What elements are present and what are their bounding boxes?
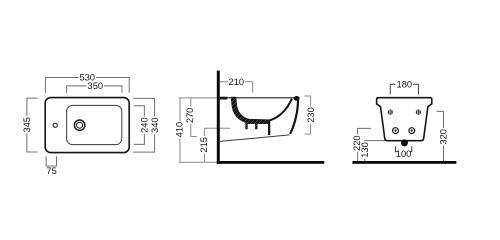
svg-text:320: 320: [439, 129, 449, 145]
svg-text:345: 345: [22, 117, 32, 133]
svg-text:180: 180: [397, 79, 413, 89]
svg-text:240: 240: [140, 117, 150, 133]
svg-text:270: 270: [185, 108, 195, 124]
svg-text:100: 100: [396, 149, 412, 159]
svg-text:210: 210: [229, 77, 245, 87]
svg-text:350: 350: [88, 81, 104, 91]
svg-text:130: 130: [360, 142, 370, 158]
svg-text:340: 340: [150, 117, 160, 133]
svg-text:230: 230: [306, 107, 316, 123]
svg-text:410: 410: [174, 122, 184, 138]
svg-text:75: 75: [46, 166, 56, 176]
svg-text:215: 215: [199, 137, 209, 153]
